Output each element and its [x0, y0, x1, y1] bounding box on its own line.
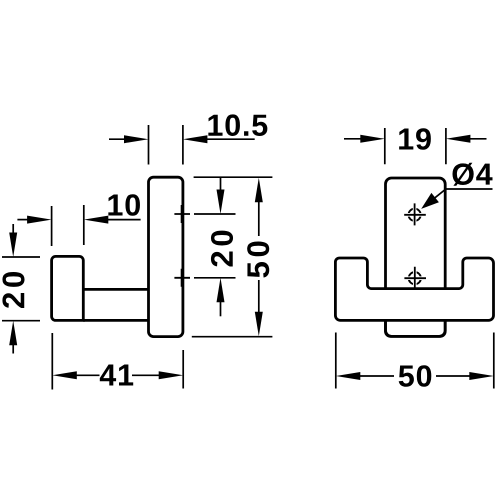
front view: lower screw hole: [404, 267, 426, 289]
side view: hook arm: [83, 289, 148, 320]
leader arrowhead: [421, 193, 439, 209]
dimension 10: extension lines: [52, 205, 84, 246]
dimension 10: left arrow: [17, 219, 29, 221]
dimension 50 left view: bottom arrow: [255, 312, 263, 337]
front view: upper screw hole: [404, 203, 426, 225]
side view: hole centre cross lower: [174, 269, 190, 287]
leader line for diameter 4: [424, 189, 493, 207]
dimension 10.5: left arrow: [109, 138, 128, 140]
dimension 19: extension lines: [385, 128, 446, 164]
dimension 50 left view: label: [247, 241, 269, 277]
dimension 20 left: label: [2, 272, 24, 308]
dimension 10.5: label: [208, 114, 267, 136]
dimension 20 left: top arrow: [12, 224, 14, 234]
dimension 10.5: extension lines: [149, 125, 183, 165]
front view: hook body (U channel): [335, 258, 493, 320]
dimension 10.5: right arrow: [183, 135, 208, 143]
side view: hook tip block: [52, 256, 84, 320]
dimension 41: extension lines: [52, 333, 183, 390]
dimension 50 front view: right arrow: [469, 372, 494, 380]
dimension 50 front view: label: [399, 365, 432, 387]
dimension 19: label: [399, 128, 431, 150]
dimension 50 front view: extension lines: [336, 333, 494, 389]
dimension 10: label: [108, 194, 140, 216]
label diameter 4: [453, 163, 493, 186]
dimension 20 left: bottom arrow: [9, 321, 17, 346]
side view: wall plate: [149, 177, 183, 336]
dimension 20 left: extension lines: [2, 257, 40, 321]
dimension 20 right: bottom arrow: [217, 278, 225, 303]
dimension 20 right: top arrow: [220, 178, 222, 193]
dimension 41: left arrow: [52, 371, 77, 379]
dimension 50 left view: extension lines: [192, 177, 273, 337]
front view: plate bottom tab outline (redrawn over body): [386, 320, 446, 336]
dimension 19: right arrow: [446, 135, 471, 143]
dimension 19: left arrow: [344, 138, 364, 140]
front view: wall plate with bottom tab: [386, 178, 446, 336]
dimension 10: right arrow: [84, 216, 109, 224]
dimension 50 left view: top arrow: [255, 178, 263, 203]
side view: hole centre cross upper: [174, 205, 190, 223]
dimension 41: right arrow: [159, 371, 184, 379]
dimension 41: label: [100, 365, 133, 386]
dimension 20 right: label: [211, 231, 233, 267]
dimension 20 right of side view: extension lines: [194, 214, 236, 278]
dimension 50 front view: left arrow: [336, 372, 361, 380]
